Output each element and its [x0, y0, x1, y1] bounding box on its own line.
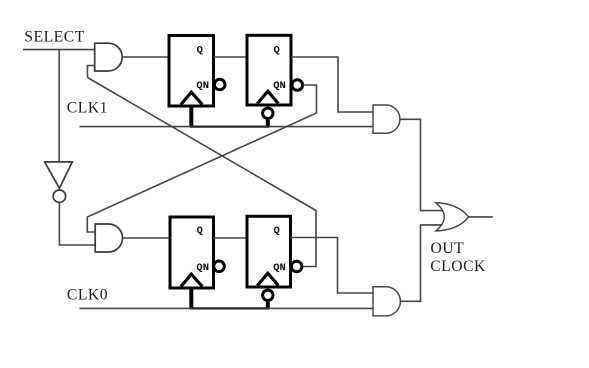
clock stem FF1: [189, 106, 193, 127]
and-gate U1 top-left: [95, 43, 123, 71]
wire SELECT branch down to inverter: [58, 50, 60, 162]
clock bubble FF2: [263, 108, 273, 118]
clock stem FF4: [266, 302, 270, 309]
and-gate U2 top-right: [373, 105, 400, 133]
clock triangle FF1: [181, 92, 203, 104]
wire FF3 Q to FF4 D: [214, 237, 248, 239]
svg-text:QN: QN: [196, 80, 209, 92]
wire U2 output to OR: [400, 119, 443, 210]
svg-text:Q: Q: [274, 225, 280, 237]
flip-flop FF2: [247, 35, 291, 105]
svg-text:QN: QN: [273, 80, 286, 92]
and-gate U5 bottom-right: [373, 287, 400, 316]
flip-flop FF1: [169, 36, 214, 107]
wire U1 output to FF1 D: [122, 56, 169, 58]
wire FF2 QN feedback right-down-diagonal to AND3 stub: [87, 85, 316, 232]
bubble FF1 QN: [214, 79, 225, 90]
wire CLK0 thick segment between FF3 and FF4 stems: [190, 307, 269, 309]
svg-text:Q: Q: [197, 44, 203, 56]
clock stem FF2: [266, 120, 270, 127]
wire inverter output down then right to AND3: [59, 203, 95, 246]
wire U4 output to FF3 D: [123, 237, 171, 239]
clock stem FF3: [189, 288, 193, 309]
wire U1 lower input stub: [88, 66, 95, 78]
wire FF1 Q to FF2 D: [214, 56, 248, 58]
svg-text:QN: QN: [273, 262, 286, 274]
wire diagonal FF4 QN feedback to U1: [88, 78, 317, 267]
wire CLK0 line: [80, 307, 374, 309]
flip-flop FF4: [247, 216, 291, 287]
clock bubble FF4: [263, 290, 273, 300]
wire SELECT input: [23, 49, 95, 51]
svg-text:CLK1: CLK1: [67, 100, 108, 117]
or-gate U6: [436, 203, 469, 231]
flip-flop FF3: [170, 217, 214, 288]
wire FF2 Q right then down to U2: [291, 57, 373, 112]
and-gate U4 bottom-left: [95, 224, 122, 252]
wire CLK1 thick segment between FF1 and FF2 stems: [190, 125, 269, 127]
bubble FF2 QN: [292, 80, 303, 91]
svg-text:CLOCK: CLOCK: [430, 258, 486, 275]
svg-text:Q: Q: [274, 44, 280, 56]
clock triangle FF3: [181, 274, 203, 286]
wire U5 output to OR: [401, 225, 443, 301]
wire OR output: [469, 216, 493, 218]
svg-text:SELECT: SELECT: [24, 28, 85, 45]
wire FF4 Q right then down to U5: [291, 238, 374, 294]
clock triangle FF4: [257, 273, 278, 285]
clock triangle FF2: [257, 91, 278, 103]
bubble FF3 QN: [214, 261, 225, 272]
svg-text:OUT: OUT: [431, 240, 465, 257]
svg-text:CLK0: CLK0: [67, 287, 108, 304]
svg-text:QN: QN: [196, 262, 209, 274]
svg-text:Q: Q: [197, 225, 203, 237]
inverter U3: [45, 162, 73, 188]
wire CLK1 line: [80, 126, 374, 128]
bubble FF4 QN: [291, 261, 302, 272]
inverter bubble: [53, 190, 65, 202]
